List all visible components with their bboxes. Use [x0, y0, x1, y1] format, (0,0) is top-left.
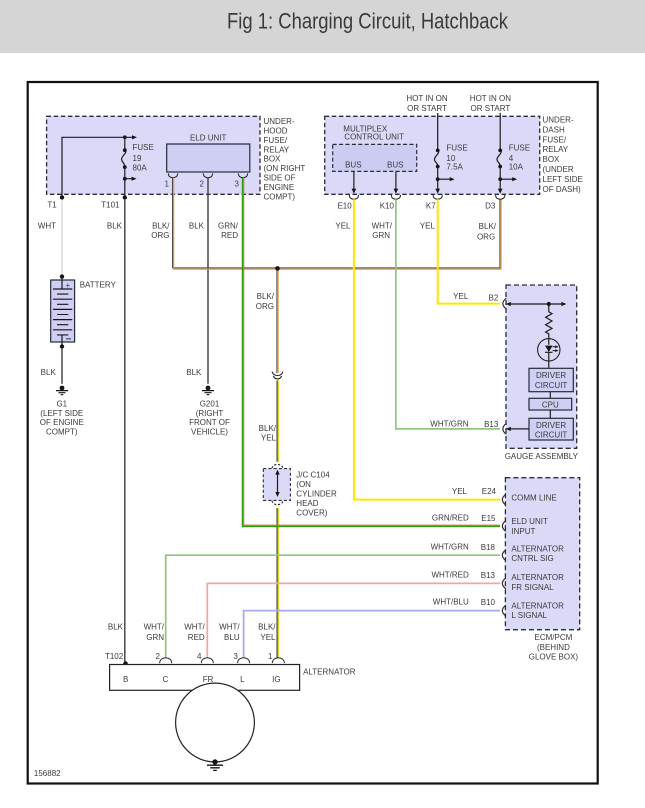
- gauge internal bus: [506, 302, 567, 306]
- wire WHT/BLU alternator L to B10: [219, 611, 500, 659]
- svg-text:(ON: (ON: [296, 480, 311, 489]
- svg-text:GLOVE BOX): GLOVE BOX): [529, 653, 579, 662]
- under-hood box label: [264, 117, 306, 201]
- connector E15: [432, 513, 548, 535]
- svg-text:WHT/: WHT/: [144, 622, 165, 631]
- svg-text:HOT IN ON: HOT IN ON: [470, 94, 511, 103]
- svg-text:YEL: YEL: [260, 633, 276, 642]
- svg-text:WHT/: WHT/: [372, 221, 393, 230]
- svg-text:BLK/: BLK/: [259, 424, 277, 433]
- svg-text:ALTERNATOR: ALTERNATOR: [511, 545, 564, 554]
- pin 2: [199, 173, 212, 188]
- connector B10: [433, 598, 564, 620]
- svg-text:ALTERNATOR: ALTERNATOR: [303, 668, 356, 677]
- svg-text:OR START: OR START: [407, 104, 447, 113]
- svg-text:BOX: BOX: [543, 155, 561, 164]
- svg-text:BLK/: BLK/: [479, 222, 497, 231]
- wire BLK ELD pin2 to G201: [186, 178, 208, 384]
- connector E10: [337, 195, 358, 210]
- svg-text:FRONT OF: FRONT OF: [189, 418, 230, 427]
- svg-text:FUSE/: FUSE/: [264, 136, 288, 145]
- svg-text:ORG: ORG: [256, 302, 274, 311]
- svg-text:INPUT: INPUT: [511, 527, 535, 536]
- svg-text:CIRCUIT: CIRCUIT: [535, 381, 568, 390]
- wire WHT/GRN K10 to B13: [372, 199, 500, 429]
- svg-text:FUSE: FUSE: [133, 143, 154, 152]
- alternator pin 4: [197, 652, 213, 663]
- svg-text:ELD UNIT: ELD UNIT: [190, 134, 227, 143]
- svg-text:LEFT SIDE: LEFT SIDE: [543, 175, 583, 184]
- driver circuit 2: [529, 410, 573, 440]
- svg-text:UNDER-: UNDER-: [264, 117, 295, 126]
- svg-text:COMPT): COMPT): [264, 192, 296, 201]
- svg-text:GRN/: GRN/: [218, 221, 239, 230]
- svg-text:GRN/RED: GRN/RED: [432, 513, 469, 522]
- svg-text:B2: B2: [489, 294, 499, 303]
- svg-text:UNDER-: UNDER-: [543, 116, 574, 125]
- svg-text:T101: T101: [101, 200, 120, 209]
- svg-text:CYLINDER: CYLINDER: [296, 490, 337, 499]
- svg-text:FUSE/: FUSE/: [543, 135, 567, 144]
- alternator: [110, 665, 356, 762]
- svg-text:BLK/: BLK/: [258, 622, 276, 631]
- under-dash box label: [543, 116, 583, 194]
- connector B2: [453, 292, 506, 309]
- connector B13 ecm: [431, 571, 564, 592]
- svg-text:BLK: BLK: [41, 368, 57, 377]
- svg-text:T1: T1: [47, 200, 57, 209]
- svg-text:ORG: ORG: [151, 231, 169, 240]
- svg-text:10A: 10A: [509, 163, 524, 172]
- svg-text:COMM LINE: COMM LINE: [511, 493, 556, 502]
- svg-text:E10: E10: [337, 201, 352, 210]
- svg-text:GAUGE ASSEMBLY: GAUGE ASSEMBLY: [505, 452, 579, 461]
- wire YEL E10 to E24: [335, 199, 500, 499]
- svg-text:3: 3: [234, 180, 239, 189]
- ground G201: [189, 386, 230, 437]
- svg-text:2: 2: [199, 180, 204, 189]
- wire GRN/RED ELD pin3 to E15: [218, 178, 500, 527]
- svg-text:FUSE: FUSE: [446, 144, 467, 153]
- svg-text:B13: B13: [481, 571, 496, 580]
- driver circuit 1: [529, 361, 573, 392]
- svg-text:ECM/PCM: ECM/PCM: [535, 633, 573, 642]
- node T102: [105, 622, 128, 666]
- svg-text:WHT/GRN: WHT/GRN: [430, 419, 468, 428]
- pin 1: [164, 173, 177, 188]
- svg-text:CPU: CPU: [542, 401, 559, 410]
- svg-text:BLK: BLK: [189, 221, 205, 230]
- wire WHT T1 to battery: [38, 200, 62, 277]
- pin 3: [234, 173, 247, 188]
- svg-text:RED: RED: [221, 231, 238, 240]
- cpu: [529, 392, 572, 410]
- svg-text:J/C C104: J/C C104: [296, 471, 330, 480]
- svg-text:VEHICLE): VEHICLE): [191, 427, 228, 436]
- svg-text:YEL: YEL: [453, 292, 469, 301]
- svg-text:+: +: [66, 281, 71, 290]
- svg-text:G1: G1: [56, 400, 67, 409]
- svg-text:L SIGNAL: L SIGNAL: [511, 611, 547, 620]
- connector K10: [380, 195, 401, 210]
- bus module: [333, 144, 417, 171]
- svg-text:COVER): COVER): [296, 509, 327, 518]
- svg-text:7.5A: 7.5A: [446, 163, 463, 172]
- svg-text:FR SIGNAL: FR SIGNAL: [511, 583, 554, 592]
- svg-text:CONTROL UNIT: CONTROL UNIT: [344, 133, 404, 142]
- svg-text:ALTERNATOR: ALTERNATOR: [511, 573, 564, 582]
- svg-text:(RIGHT: (RIGHT: [196, 409, 224, 418]
- svg-text:1: 1: [164, 180, 169, 189]
- svg-text:SIDE OF: SIDE OF: [264, 174, 296, 183]
- resistor: [546, 304, 552, 338]
- svg-text:K10: K10: [380, 201, 395, 210]
- svg-text:YEL: YEL: [420, 221, 436, 230]
- svg-text:BUS: BUS: [387, 161, 403, 170]
- svg-text:B10: B10: [481, 598, 496, 607]
- svg-text:RED: RED: [188, 633, 205, 642]
- svg-text:WHT/BLU: WHT/BLU: [433, 598, 469, 607]
- multiplex control unit label: [343, 124, 404, 141]
- wire BLK/YEL C104 to alternator IG: [258, 508, 278, 658]
- svg-text:YEL: YEL: [335, 221, 351, 230]
- wire BLK/ORG branch to junction: [256, 268, 278, 373]
- svg-text:BLK: BLK: [108, 622, 124, 631]
- svg-text:GRN: GRN: [372, 231, 390, 240]
- svg-text:YEL: YEL: [452, 487, 468, 496]
- svg-text:ENGINE: ENGINE: [264, 183, 295, 192]
- svg-text:K7: K7: [426, 201, 436, 210]
- wire YEL K7 to B2: [420, 199, 500, 303]
- svg-text:Fig 1: Charging Circuit, Hatch: Fig 1: Charging Circuit, Hatchback: [227, 9, 509, 34]
- svg-text:FR: FR: [203, 675, 214, 684]
- svg-text:DRIVER: DRIVER: [536, 421, 566, 430]
- fuse F19: [122, 135, 154, 197]
- svg-text:OF ENGINE: OF ENGINE: [40, 418, 84, 427]
- svg-text:80A: 80A: [133, 164, 148, 173]
- alternator pin 3: [233, 652, 249, 663]
- connector B18: [431, 542, 564, 563]
- svg-text:19: 19: [133, 154, 142, 163]
- svg-text:(UNDER: (UNDER: [543, 165, 574, 174]
- hot in on label 1: [406, 94, 447, 113]
- svg-text:(LEFT SIDE: (LEFT SIDE: [40, 409, 83, 418]
- alternator ground: [207, 759, 223, 770]
- svg-text:E15: E15: [481, 514, 496, 523]
- bus arrow E10: [352, 171, 357, 193]
- svg-text:WHT/RED: WHT/RED: [431, 571, 469, 580]
- svg-text:IG: IG: [272, 675, 280, 684]
- charge indicator lamp: [538, 338, 560, 361]
- svg-text:BLK: BLK: [186, 368, 202, 377]
- svg-text:BLK/: BLK/: [152, 221, 170, 230]
- svg-text:CIRCUIT: CIRCUIT: [535, 431, 568, 440]
- diagram frame: [28, 82, 598, 784]
- svg-text:COMPT): COMPT): [46, 427, 78, 436]
- svg-text:BLK: BLK: [107, 221, 123, 230]
- svg-text:G201: G201: [200, 400, 220, 409]
- svg-text:ELD UNIT: ELD UNIT: [511, 517, 548, 526]
- svg-text:2: 2: [155, 652, 160, 661]
- svg-text:BLU: BLU: [224, 633, 240, 642]
- wire WHT/RED alternator FR to B13: [184, 583, 500, 658]
- connector K7: [426, 195, 442, 210]
- under-dash fuse/relay box: [325, 116, 540, 194]
- node T1: [47, 195, 64, 209]
- junction node BLK/ORG: [275, 266, 280, 271]
- svg-text:WHT/GRN: WHT/GRN: [431, 542, 469, 551]
- junction connector C104: [263, 464, 290, 504]
- fuse F4: [497, 113, 530, 194]
- svg-text:FUSE: FUSE: [509, 144, 530, 153]
- connector D3: [485, 195, 505, 210]
- connector B13 gauge: [430, 419, 529, 434]
- svg-text:4: 4: [197, 652, 202, 661]
- svg-text:D3: D3: [485, 201, 496, 210]
- svg-text:BOX: BOX: [264, 155, 282, 164]
- wire BLK/ORG D3 labels: [477, 222, 497, 241]
- svg-text:B13: B13: [484, 420, 499, 429]
- svg-text:L: L: [240, 675, 245, 684]
- svg-text:1: 1: [268, 652, 273, 661]
- wire BLK battery to G1: [41, 349, 62, 384]
- svg-text:E24: E24: [482, 487, 497, 496]
- svg-text:DRIVER: DRIVER: [536, 371, 566, 380]
- title banner: [0, 0, 645, 53]
- svg-text:HEAD: HEAD: [296, 499, 318, 508]
- svg-text:B18: B18: [481, 543, 496, 552]
- hot in on label 2: [470, 94, 511, 113]
- svg-text:HOOD: HOOD: [264, 127, 288, 136]
- gauge assembly box: [506, 285, 577, 448]
- wire BLK T101 to T102: [107, 200, 125, 664]
- inline connector: [272, 372, 283, 379]
- svg-text:WHT/: WHT/: [219, 622, 240, 631]
- svg-text:3: 3: [233, 652, 238, 661]
- wire BLK/YEL connector to C104: [259, 380, 279, 461]
- svg-text:ALTERNATOR: ALTERNATOR: [511, 601, 564, 610]
- svg-text:C: C: [163, 675, 169, 684]
- ground G1: [40, 386, 84, 437]
- ecm/pcm label: [529, 633, 579, 661]
- svg-text:RELAY: RELAY: [543, 145, 569, 154]
- svg-text:B: B: [123, 675, 128, 684]
- alternator pin 2: [155, 652, 171, 663]
- wire WHT/GRN alternator C to B18: [144, 555, 500, 658]
- node T101: [101, 195, 127, 209]
- svg-text:ORG: ORG: [477, 232, 495, 241]
- svg-text:BLK/: BLK/: [257, 292, 275, 301]
- bus arrow K10: [394, 171, 399, 193]
- svg-text:RELAY: RELAY: [264, 145, 290, 154]
- svg-text:DASH: DASH: [543, 125, 565, 134]
- under-hood fuse/relay box: [47, 116, 260, 194]
- fuse F10: [434, 113, 467, 194]
- wire BLK/ORG ELD pin1 to D3: [151, 178, 501, 269]
- svg-text:BATTERY: BATTERY: [80, 280, 117, 289]
- svg-text:CNTRL SIG: CNTRL SIG: [511, 554, 553, 563]
- connector E24: [452, 487, 557, 505]
- svg-text:WHT: WHT: [38, 221, 56, 230]
- svg-text:T102: T102: [105, 652, 124, 661]
- svg-text:GRN: GRN: [146, 633, 164, 642]
- svg-text:(ON RIGHT: (ON RIGHT: [264, 164, 306, 173]
- wire T1 riser: [62, 137, 125, 197]
- svg-text:(BEHIND: (BEHIND: [537, 643, 570, 652]
- ELD unit: [167, 134, 250, 173]
- svg-text:YEL: YEL: [261, 434, 277, 443]
- ecm/pcm box: [505, 478, 579, 630]
- svg-text:BUS: BUS: [345, 161, 361, 170]
- svg-text:156882: 156882: [34, 769, 61, 778]
- battery: [51, 274, 117, 348]
- C104 label: [296, 471, 337, 518]
- svg-text:WHT/: WHT/: [184, 622, 205, 631]
- svg-text:HOT IN ON: HOT IN ON: [406, 94, 447, 103]
- svg-text:OR START: OR START: [471, 104, 511, 113]
- alternator pin 1: [268, 652, 284, 663]
- svg-text:OF DASH): OF DASH): [543, 185, 582, 194]
